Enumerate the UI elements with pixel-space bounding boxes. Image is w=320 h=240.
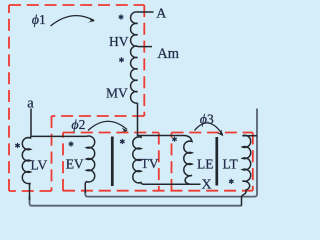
svg-text:LT: LT (223, 157, 239, 172)
svg-text:X: X (202, 178, 212, 193)
svg-text:LE: LE (197, 157, 214, 172)
svg-text:TV: TV (141, 156, 159, 171)
svg-text:ϕ3: ϕ3 (200, 112, 214, 128)
svg-text:LV: LV (31, 157, 48, 172)
svg-text:MV: MV (106, 86, 128, 101)
svg-text:ϕ1: ϕ1 (32, 12, 46, 28)
svg-text:ϕ2: ϕ2 (71, 117, 85, 133)
svg-text:EV: EV (66, 157, 84, 172)
svg-text:HV: HV (109, 34, 129, 49)
svg-text:a: a (27, 95, 34, 111)
svg-text:A: A (156, 6, 167, 21)
svg-text:Am: Am (157, 46, 179, 62)
